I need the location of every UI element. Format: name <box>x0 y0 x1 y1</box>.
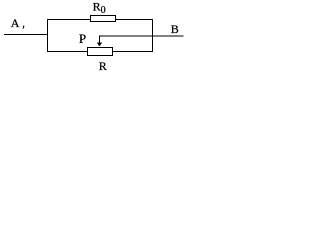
wire <box>4 34 47 36</box>
svg-text:B: B <box>171 22 179 36</box>
wire <box>152 19 154 52</box>
svg-text:R0: R0 <box>93 0 106 16</box>
resistor R0 <box>91 16 116 22</box>
wire <box>99 35 184 37</box>
wire <box>47 19 49 52</box>
svg-text:R: R <box>99 59 107 73</box>
wire <box>113 51 154 53</box>
potentiometer wiper P <box>97 36 102 47</box>
wire <box>47 51 88 53</box>
wire <box>47 19 153 21</box>
comma after node A <box>22 26 24 29</box>
resistor R <box>88 48 113 56</box>
svg-text:A: A <box>11 16 20 30</box>
svg-text:P: P <box>79 31 86 46</box>
